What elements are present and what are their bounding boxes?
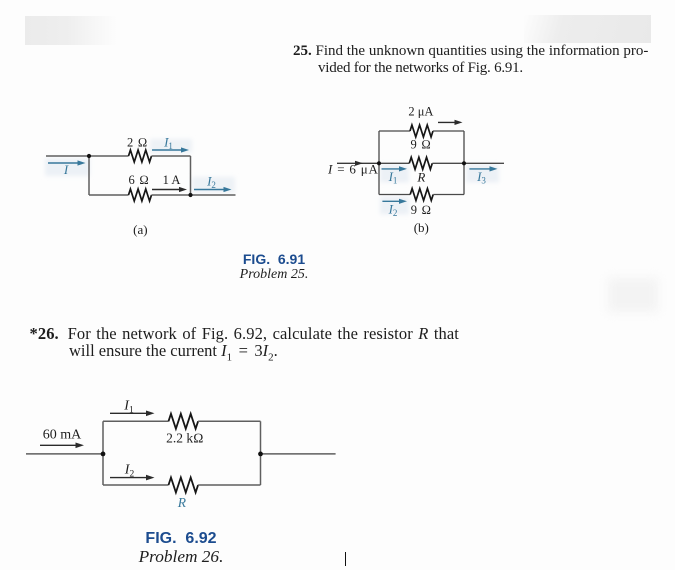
wire: input lead (b) [337,162,379,164]
blue scan-wash behind current arrow I3 (b) [466,165,499,183]
svg-text:I: I [63,162,69,177]
blue scan-wash behind current arrow I (a) [45,158,90,176]
svg-text:9 Ω: 9 Ω [410,137,431,151]
svg-text:2 μA: 2 μA [408,105,433,119]
problem 25 text line 1 [293,43,643,60]
svg-text:I1: I1 [163,135,173,152]
wire: output lead right (a) [191,194,236,196]
caption Problem 26. [101,548,261,565]
svg-text:2.2 kΩ: 2.2 kΩ [166,431,203,446]
wire: bottom branch left (b) [379,194,410,196]
node: left node (6.92) [101,452,106,457]
text cursor bar bottom right [345,552,347,566]
current arrow 2 uA (black, b) [438,120,463,125]
wire: input lead (6.92) [26,453,103,455]
blue scan-wash behind current arrow I1 (b) [380,165,409,183]
wire: left rail (6.92) [102,421,104,485]
svg-text:I2: I2 [206,174,216,191]
current arrow 1 A (black, a) [152,187,187,192]
svg-text:I = 6 μA: I = 6 μA [327,162,379,177]
current arrowhead on input wire (b) [355,161,363,166]
svg-text:6 Ω: 6 Ω [128,173,149,187]
blue scan-wash behind current arrow I2 (a) [192,177,235,193]
resistor 6-ohm (a) [129,189,152,201]
current arrow I2 (blue, b) [382,199,407,204]
current arrow I (blue, a) [48,160,86,165]
wire: bottom branch right (b) [433,194,464,196]
scan artifact: gray band top-right [524,15,651,43]
blue scan-wash behind current arrow I2 (b) [380,197,409,215]
node: right node (6.92) [258,452,263,457]
problem 26 text line 1 [30,325,459,342]
current arrow I2 (blue, a) [194,187,232,192]
wire: top branch left (b) [379,130,410,132]
scan artifact: gray band top-left [25,16,117,45]
caption Problem 25. [194,268,354,282]
wire: right rail (a) [190,156,192,195]
resistor R middle (b) [409,157,432,169]
wire: middle branch right (b) [432,162,464,164]
current arrow I1 (blue, b) [382,166,408,171]
node: output node (a) [188,193,192,197]
wire: right rail (6.92) [260,421,262,485]
wire: input lead left (a) [46,155,89,157]
wire: top branch right (6.92) [198,420,260,422]
wire: output lead (b) [464,162,504,164]
resistor 9-ohm top (b) [410,125,433,137]
svg-text:R: R [416,170,425,185]
wire: bottom branch left segment (a) [89,194,129,196]
caption FIG. 6.91 [194,252,354,266]
wire: output lead (6.92) [261,453,336,455]
current arrow I3 (blue, b) [469,166,497,171]
node: input node (a) [87,154,91,158]
wire: right rail (b) [463,131,465,195]
resistor R (6.92) [169,478,199,493]
svg-text:2 Ω: 2 Ω [127,135,148,149]
scan artifact: faint blob right middle [608,278,658,312]
current arrow 60 mA (black, 6.92) [40,443,84,449]
wire: middle branch left (b) [379,162,409,164]
problem 25 text line 2 [318,60,523,77]
node: left node (b) [377,161,381,165]
blue scan-wash behind current arrow I1 (a) [150,139,192,153]
svg-text:R: R [177,495,187,510]
current arrow I2 (black, 6.92) [110,475,155,481]
resistor 2-ohm (a) [129,150,152,162]
resistor 9-ohm bottom (b) [410,189,433,201]
current arrow I1 (blue, a) [152,147,189,152]
current arrow I1 (black, 6.92) [110,411,155,417]
caption FIG. 6.92 [101,531,261,547]
wire: bottom branch right segment (a) [152,194,191,196]
svg-text:I2: I2 [124,463,135,480]
wire: left rail (a) [88,156,90,195]
wire: top branch left (6.92) [103,420,169,422]
resistor 2.2-kohm (6.92) [169,414,199,429]
wire: top branch left segment (a) [89,155,129,157]
wire: bottom branch right (6.92) [198,484,260,486]
wire: left rail (b) [378,131,380,195]
problem 26 text line 2 [69,342,278,367]
svg-text:60 mA: 60 mA [43,428,82,443]
wire: top branch right (b) [433,130,464,132]
wire: top branch right segment (a) [152,155,191,157]
node: right node (b) [462,161,466,165]
wire: bottom branch left (6.92) [103,484,169,486]
svg-text:(a): (a) [133,222,147,237]
svg-text:1 A: 1 A [163,173,181,187]
svg-text:9 Ω: 9 Ω [411,203,432,217]
svg-text:(b): (b) [414,220,429,235]
